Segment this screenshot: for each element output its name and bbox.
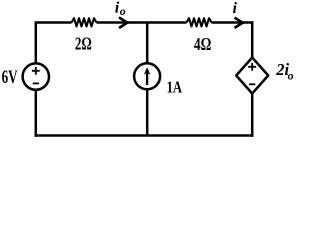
svg-text:2Ω: 2Ω: [75, 33, 92, 53]
svg-text:i: i: [233, 0, 238, 17]
svg-text:4Ω: 4Ω: [194, 34, 212, 54]
svg-text:1A: 1A: [167, 77, 182, 96]
svg-text:6V: 6V: [2, 68, 18, 88]
svg-text:o: o: [120, 4, 126, 18]
svg-text:o: o: [288, 69, 294, 83]
